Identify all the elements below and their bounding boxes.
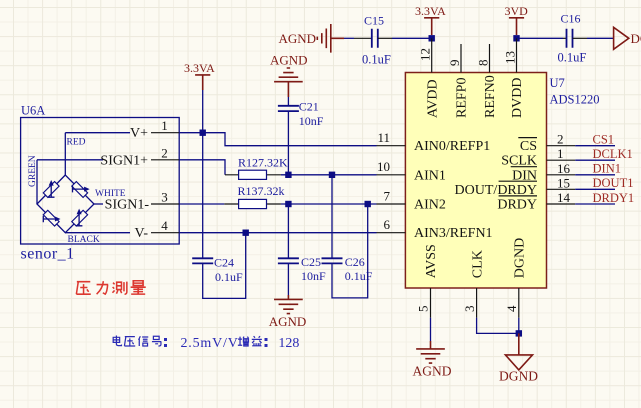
strain gauge top-left (43, 180, 59, 197)
node C25/AIN2 junction (285, 201, 291, 207)
ground AGND below C25 (269, 295, 307, 329)
capacitor C21 (278, 97, 324, 175)
svg-text:V+: V+ (130, 126, 148, 141)
svg-text:V-: V- (135, 226, 149, 241)
svg-text:1: 1 (557, 146, 564, 161)
pin 1 SCLK / net DCLK1 (501, 146, 633, 169)
svg-text:16: 16 (557, 161, 571, 176)
capacitor C26 (322, 175, 373, 298)
node C26/AIN1 junction (329, 172, 335, 178)
power port DGND bottom (triangle) (499, 333, 538, 383)
svg-text:2: 2 (557, 132, 564, 147)
svg-text:4: 4 (161, 218, 168, 233)
capacitor C24 (192, 233, 246, 299)
strain gauge bottom-left (43, 210, 60, 226)
wire RED lead (65, 133, 85, 175)
wire AGND to C15 (344, 37, 354, 39)
svg-text:C26: C26 (345, 255, 365, 269)
node C21/AIN1 junction (285, 172, 291, 178)
svg-text:12: 12 (418, 48, 433, 61)
power port 3.3VA left (184, 61, 215, 90)
wire C15 to 3.3VA junction (392, 37, 432, 39)
resistor R12 (225, 156, 288, 180)
caption 电压信号: 2.5mV/V 增益: 128 (blue) (113, 336, 161, 346)
power port DGND right (triangle) (614, 27, 641, 49)
wire AVSS to AGND (430, 318, 432, 341)
svg-text:CS: CS (520, 139, 537, 154)
svg-text:128: 128 (278, 336, 299, 351)
svg-text:AIN1: AIN1 (414, 168, 446, 183)
svg-text:0.1uF: 0.1uF (362, 53, 391, 67)
wire CLK to DGND node (477, 318, 519, 334)
svg-text:6: 6 (384, 217, 391, 232)
pin 4 DGND (504, 238, 528, 318)
svg-text:2.5mV/V: 2.5mV/V (181, 336, 239, 351)
power port 3.3VA top (415, 4, 446, 35)
wire BLACK label (68, 235, 100, 245)
svg-text:15: 15 (557, 175, 570, 190)
pin 6 AIN3/REFN1 (377, 217, 493, 241)
node C24/V- junction (243, 230, 249, 236)
svg-text:R137.32k: R137.32k (238, 184, 285, 198)
wire C16 to DGND port (587, 37, 614, 39)
svg-text:0.1uF: 0.1uF (215, 270, 243, 284)
capacitor C16 (558, 12, 588, 65)
svg-text:0.1uF: 0.1uF (345, 269, 373, 283)
pin 8 REFN0 (476, 44, 499, 118)
wire V-/AIN3 net (179, 232, 376, 234)
svg-text:3: 3 (161, 190, 168, 205)
strain gauge bottom-right (72, 209, 88, 227)
capacitor C25 (278, 204, 326, 295)
wire SIGN1- to R13 (179, 203, 224, 205)
svg-text:AGND: AGND (279, 31, 317, 46)
svg-text:2: 2 (161, 145, 168, 160)
svg-text:senor_1: senor_1 (21, 246, 75, 263)
node 3VD/pin13 junction (513, 35, 519, 41)
svg-text:5: 5 (416, 306, 431, 313)
ground AGND bottom (413, 341, 452, 379)
sensor U6A (21, 104, 180, 263)
wire SIGN1+ net to R12 (179, 160, 225, 175)
svg-text:DGND: DGND (499, 368, 538, 383)
svg-text:C21: C21 (299, 99, 319, 113)
svg-text:U7: U7 (550, 76, 565, 90)
strain gauge top-right (72, 182, 90, 198)
svg-text:AGND: AGND (413, 364, 452, 379)
svg-text:AIN3/REFN1: AIN3/REFN1 (414, 226, 493, 241)
svg-text:SIGN1+: SIGN1+ (100, 153, 148, 168)
svg-text:GREEN: GREEN (28, 155, 38, 187)
ground AGND above C21 (270, 52, 308, 97)
node C26/AIN2 junction (365, 201, 371, 207)
pin 15 DOUT/DRDY / net DOUT1 (455, 175, 634, 198)
node V+/3.3VA junction (200, 130, 206, 136)
title 压力测量 (red) (76, 281, 145, 295)
svg-text:DRDY: DRDY (497, 198, 537, 213)
pin 5 AVSS (416, 244, 440, 318)
svg-text:DRDY1: DRDY1 (593, 191, 635, 205)
svg-text:10: 10 (377, 159, 390, 174)
node CLK/DGND junction (516, 330, 522, 336)
svg-text:CS1: CS1 (593, 133, 615, 147)
svg-text:3.3VA: 3.3VA (184, 61, 215, 75)
svg-text:DGND: DGND (631, 31, 641, 46)
pin 7 AIN2 (377, 188, 446, 212)
svg-text:10nF: 10nF (301, 269, 326, 283)
pin 1 V+ (65, 118, 179, 141)
wire WHITE label (95, 189, 126, 199)
wire AIN1 net (281, 174, 377, 176)
wire 3VD to C16 (517, 37, 564, 39)
pin 2 SIGN1+ (37, 145, 179, 168)
svg-text:14: 14 (557, 190, 571, 205)
svg-text:13: 13 (503, 51, 518, 64)
svg-text:4: 4 (504, 305, 519, 312)
svg-text:11: 11 (377, 130, 390, 145)
svg-text:DVDD: DVDD (510, 78, 525, 118)
svg-text:AVDD: AVDD (425, 79, 440, 118)
node 3.3VA/pin12 junction (429, 35, 435, 41)
pin 16 DIN / net DIN1 (511, 161, 621, 184)
pin 14 DRDY / net DRDY1 (497, 190, 634, 213)
wire DGND pin to port (518, 318, 520, 334)
svg-text:1: 1 (161, 118, 168, 133)
svg-text:8: 8 (476, 60, 491, 67)
svg-text:C25: C25 (301, 255, 321, 269)
svg-text:DOUT1: DOUT1 (593, 176, 634, 190)
svg-text:0.1uF: 0.1uF (558, 51, 587, 65)
svg-text:9: 9 (447, 60, 462, 67)
pin 10 AIN1 (377, 159, 446, 183)
svg-text:U6A: U6A (21, 104, 45, 118)
pin 2 CS / net CS1 (518, 132, 615, 155)
svg-text:AIN2: AIN2 (414, 198, 446, 213)
svg-text:RED: RED (67, 138, 86, 148)
svg-text:3.3VA: 3.3VA (415, 4, 446, 18)
svg-text:3VD: 3VD (505, 4, 529, 18)
svg-text:AVSS: AVSS (424, 244, 439, 278)
resistor R13 (224, 184, 284, 209)
svg-text:R127.32K: R127.32K (238, 156, 288, 170)
svg-text:C24: C24 (214, 256, 234, 270)
svg-text:ADS1220: ADS1220 (550, 93, 600, 107)
svg-text:CLK: CLK (470, 250, 485, 278)
pin 9 REFP0 (447, 44, 470, 118)
wire AIN2 net (281, 203, 377, 205)
wire 3.3VA drop to C24 (202, 90, 204, 258)
svg-text:C16: C16 (561, 12, 581, 26)
svg-text:REFN0: REFN0 (483, 75, 498, 118)
IC U7 ADS1220 body (405, 73, 599, 289)
svg-text:10nF: 10nF (299, 114, 324, 128)
wire V+ net to AIN0 (179, 133, 376, 146)
capacitor C15 (354, 13, 392, 66)
power port 3VD (505, 4, 529, 35)
pin 12 AVDD (418, 38, 441, 118)
pin 11 AIN0/REFP1 (377, 130, 491, 154)
wire GREEN lead (28, 155, 38, 204)
bridge diamond (37, 175, 94, 233)
svg-text:REFP0: REFP0 (455, 78, 470, 118)
svg-text:BLACK: BLACK (68, 235, 100, 245)
pin 3 SIGN1- (94, 190, 179, 213)
svg-text:DGND: DGND (513, 238, 528, 278)
pin 4 V- (65, 218, 179, 241)
svg-text:DCLK1: DCLK1 (593, 147, 633, 161)
svg-text:AGND: AGND (270, 52, 308, 67)
svg-text:AIN0/REFP1: AIN0/REFP1 (414, 139, 490, 154)
svg-text:C15: C15 (364, 13, 384, 27)
svg-text:7: 7 (384, 188, 391, 203)
pin 3 CLK (462, 250, 486, 318)
ground AGND top left (rotated) (279, 24, 345, 53)
pin 13 DVDD (503, 38, 526, 118)
svg-text:SIGN1-: SIGN1- (105, 198, 150, 213)
svg-text:DIN1: DIN1 (593, 162, 621, 176)
svg-text:3: 3 (462, 306, 477, 313)
svg-text:AGND: AGND (269, 314, 307, 329)
